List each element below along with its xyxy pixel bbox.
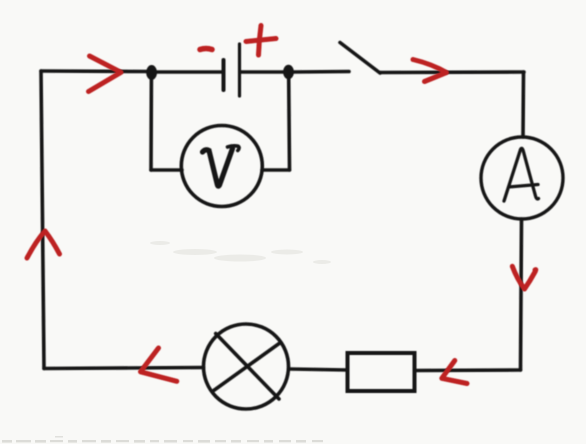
- current arrow top-right (after switch): [413, 60, 447, 82]
- current arrow bottom near lamp: [141, 348, 177, 381]
- wire left vertical: [41, 71, 44, 369]
- wire left dot down: [149, 78, 153, 170]
- wire to switch: [293, 70, 349, 74]
- wire battery right segment: [241, 70, 284, 74]
- wire right vertical upper: [521, 72, 525, 137]
- wire right dot down: [287, 78, 291, 170]
- wire switch to top-right corner: [380, 70, 524, 74]
- switch blade: [340, 43, 380, 74]
- node junction dot left: [146, 65, 157, 80]
- battery plus label horizontal: [246, 39, 276, 42]
- battery plus label vertical: [259, 26, 262, 56]
- ammeter U1 circle: [481, 137, 563, 219]
- wire battery left segment: [157, 70, 222, 74]
- wire to voltmeter left: [151, 168, 182, 172]
- lamp cross line 2: [213, 343, 281, 392]
- current arrow top-left: [89, 56, 122, 92]
- resistor R1: [348, 353, 415, 391]
- battery minus label: [200, 49, 212, 50]
- faint scan residue at bottom edge: [2, 436, 323, 443]
- current arrow right vertical (down): [512, 266, 536, 289]
- wire resistor to lamp: [290, 369, 347, 370]
- wire to voltmeter right: [262, 168, 290, 172]
- wire right vertical lower: [521, 219, 522, 370]
- lamp L1 circle: [204, 324, 289, 409]
- red annotations: [27, 26, 536, 384]
- voltmeter letter V right serif: [228, 146, 240, 151]
- battery positive plate (long): [238, 44, 241, 96]
- battery negative plate (short): [222, 60, 226, 90]
- node junction dot right: [283, 65, 294, 79]
- voltmeter U2 circle: [181, 126, 262, 207]
- wire top-left horizontal: [41, 69, 147, 73]
- current arrow bottom near resistor: [442, 361, 467, 384]
- voltmeter letter V: [203, 149, 233, 187]
- lamp cross line 1: [216, 334, 279, 400]
- ammeter letter A: [504, 148, 539, 201]
- wire lamp to bottom-left corner: [44, 368, 204, 369]
- current arrow left vertical (up): [27, 231, 60, 258]
- faint scan smudges mid-page: [150, 241, 331, 264]
- wire bottom right: [416, 368, 521, 372]
